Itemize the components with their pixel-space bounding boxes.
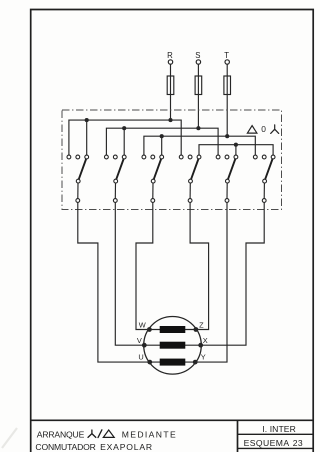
switch pole 2 blade (in star position) <box>116 159 123 179</box>
wire pole1 to U <box>78 203 148 363</box>
wire pole3 to W <box>136 203 153 330</box>
wire pole6 to X <box>203 203 264 346</box>
wire S drop to bus B <box>197 64 199 128</box>
node S (supply terminal) <box>195 51 200 64</box>
switch enclosure boundary (dash-dot) <box>62 110 282 210</box>
switch pole 2 pivot <box>114 179 118 183</box>
switch pole 4 pivot <box>189 179 193 183</box>
svg-text:EXAPOLAR: EXAPOLAR <box>100 442 152 452</box>
svg-text:X: X <box>203 336 208 345</box>
svg-text:Z: Z <box>199 321 204 330</box>
fuse F-T <box>224 76 231 95</box>
switch pole 5 blade (in star position) <box>228 159 235 179</box>
motor terminal W <box>139 321 152 332</box>
wire pole 6 pivot to bottom terminal <box>263 183 265 198</box>
winding V-X coil <box>160 342 185 348</box>
switch pole 3 contacts <box>142 155 164 159</box>
svg-text:23: 23 <box>293 438 303 448</box>
wire bus A (R feed: pole1 L+R, pole4 L) <box>69 120 181 155</box>
svg-text:I. INTER: I. INTER <box>262 424 296 434</box>
switch pole 6 blade (in star position) <box>265 159 272 179</box>
winding W-Z lead <box>149 329 196 331</box>
wire R drop to bus A <box>170 64 172 120</box>
svg-text:ESQUEMA: ESQUEMA <box>244 438 290 448</box>
junction dot R/bus A <box>168 118 172 122</box>
wire pole 4 pivot to bottom terminal <box>189 183 191 198</box>
junction dot bus C / pole3 R <box>160 134 164 138</box>
switch pole 1 bottom terminal <box>76 199 80 203</box>
switch pole 6 bottom terminal <box>262 199 266 203</box>
switch pole 2 bottom terminal <box>113 199 117 203</box>
node R (supply terminal) <box>167 51 173 64</box>
switch pole 2 contacts <box>105 155 127 159</box>
winding U-Y coil <box>160 359 185 365</box>
winding W-Z coil <box>160 326 185 332</box>
motor terminal V <box>137 336 147 347</box>
svg-text:R: R <box>167 51 173 60</box>
wire bus D (star bridge: pole4 R, pole5 R, pole6 R) <box>199 145 273 155</box>
wire bus B (S feed: pole2 L+R, pole5 L) <box>106 128 218 155</box>
wire bus C (T feed: pole3 L+R, pole6 L) <box>144 136 255 155</box>
node T (supply terminal) <box>224 51 229 64</box>
wire pole2 to V <box>115 203 142 346</box>
junction dot bus A / pole1 R <box>85 118 89 122</box>
switch pole 3 blade (in star position) <box>154 159 161 179</box>
switch pole 4 bottom terminal <box>188 199 192 203</box>
switch pole 4 blade (in star position) <box>191 159 198 179</box>
wire pole 1 pivot to bottom terminal <box>77 183 79 198</box>
wire pole 2 pivot to bottom terminal <box>114 183 116 198</box>
svg-text:CONMUTADOR: CONMUTADOR <box>35 442 96 452</box>
winding V-X lead <box>144 344 200 346</box>
switch position labels: delta 0 star <box>247 125 278 133</box>
motor terminal Z <box>194 321 205 332</box>
switch pole 1 contacts <box>67 155 89 159</box>
svg-text:S: S <box>195 51 200 60</box>
junction dot T/bus C <box>225 134 229 138</box>
svg-text:Y: Y <box>201 353 206 362</box>
switch pole 4 contacts <box>179 155 201 159</box>
switch pole 3 pivot <box>151 179 155 183</box>
winding U-Y lead <box>150 361 195 363</box>
switch pole 1 blade (in star position) <box>79 159 86 179</box>
wire pole4 to Z <box>190 203 209 330</box>
fuse F-R <box>167 76 174 95</box>
svg-text:0: 0 <box>261 124 266 134</box>
junction dot S/bus B <box>196 126 200 130</box>
wire T drop to bus C <box>226 64 228 136</box>
wire pole5 to Y <box>197 203 227 363</box>
motor terminal U <box>138 353 152 365</box>
switch pole 5 bottom terminal <box>225 199 229 203</box>
wire pole 5 pivot to bottom terminal <box>226 183 228 198</box>
switch pole 1 pivot <box>76 179 80 183</box>
switch pole 5 contacts <box>216 155 238 159</box>
fuse F-S <box>195 76 202 95</box>
switch pole 6 pivot <box>263 179 267 183</box>
motor M1 stator circle <box>144 317 202 375</box>
switch pole 5 pivot <box>226 179 230 183</box>
svg-text:ARRANQUE: ARRANQUE <box>37 429 85 439</box>
motor terminal X <box>198 336 207 348</box>
switch pole 6 contacts <box>253 155 275 159</box>
svg-text:V: V <box>137 336 142 345</box>
junction dot bus B / pole2 R <box>122 126 126 130</box>
junction dot bus D / pole5 R <box>234 143 238 147</box>
svg-text:W: W <box>139 321 146 330</box>
svg-text:T: T <box>224 51 229 60</box>
motor terminal Y <box>193 353 206 365</box>
svg-text:U: U <box>138 353 143 362</box>
switch pole 3 bottom terminal <box>151 199 155 203</box>
svg-text:MEDIANTE: MEDIANTE <box>122 429 176 439</box>
wire pole 3 pivot to bottom terminal <box>152 183 154 198</box>
